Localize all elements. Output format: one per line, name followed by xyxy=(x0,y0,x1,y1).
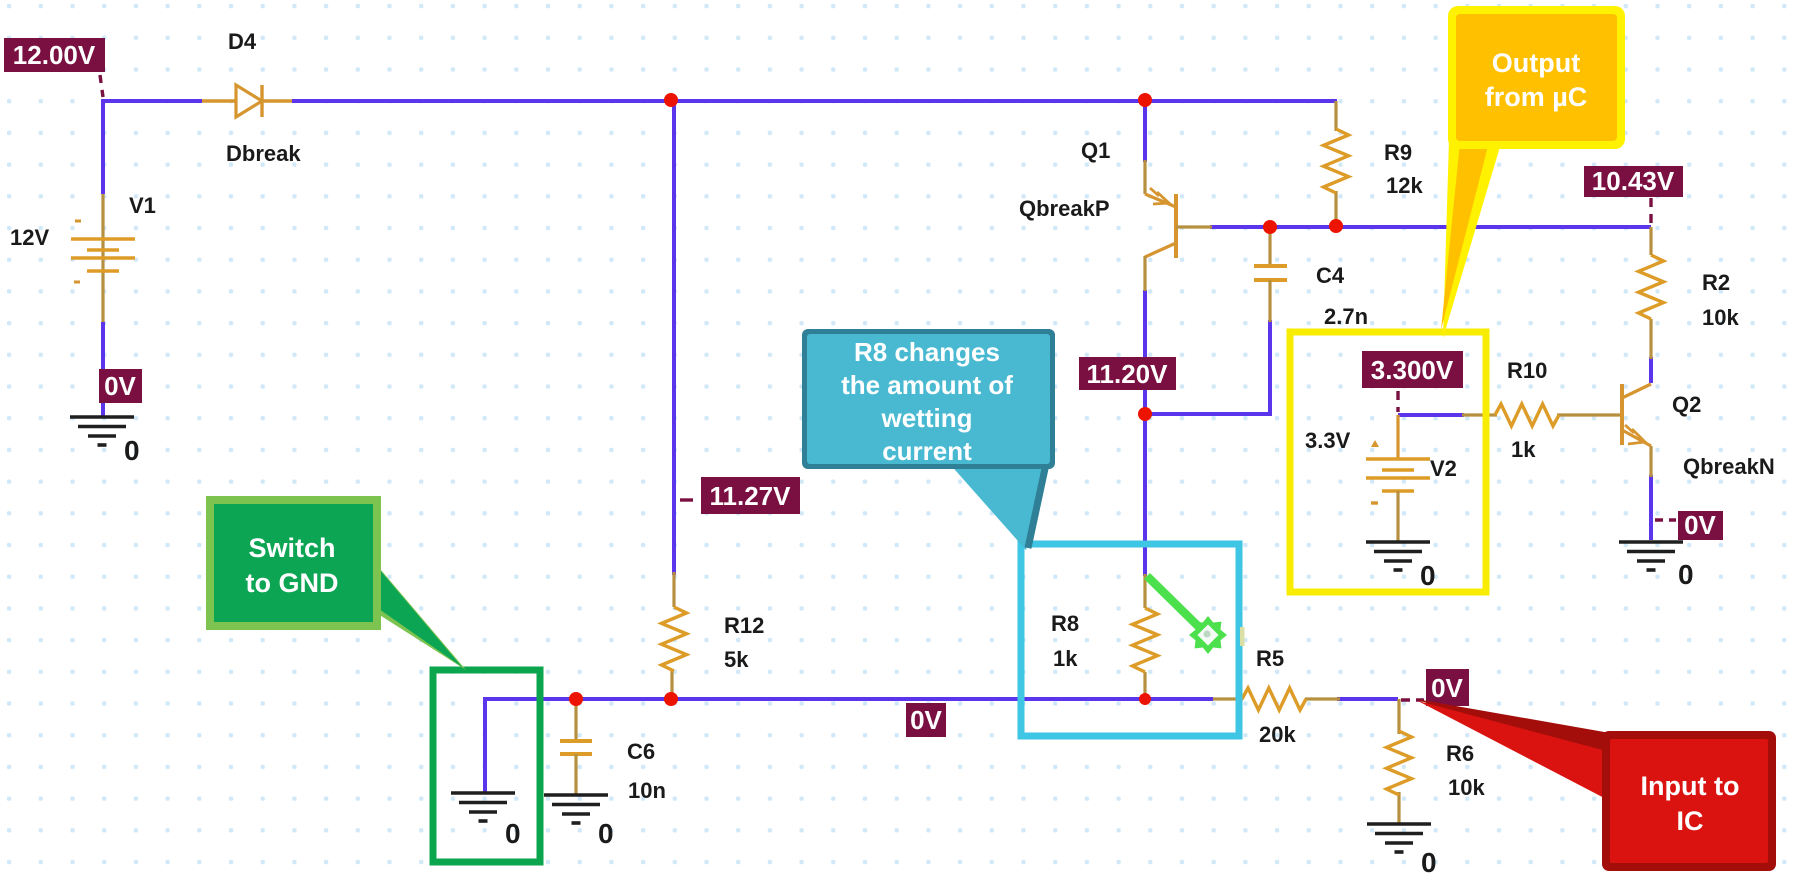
tick 0V Q2 xyxy=(1655,518,1676,521)
voltage label 0V right xyxy=(1426,669,1469,706)
ground inside switch box xyxy=(451,793,521,849)
wire base rail y227 xyxy=(1210,225,1651,229)
node R8 bottom xyxy=(1139,693,1151,705)
resistor R6 xyxy=(1387,699,1412,824)
ground below Q2 xyxy=(1619,542,1694,590)
wire R2 bottom to Q2 collector xyxy=(1649,357,1653,383)
callout green Switch to GND xyxy=(206,496,466,670)
svg-text:Q2: Q2 xyxy=(1672,392,1701,417)
wire Q2 emitter to ground xyxy=(1649,475,1653,540)
resistor R2 xyxy=(1639,227,1664,359)
svg-text:Switch: Switch xyxy=(248,533,335,563)
svg-text:IC: IC xyxy=(1677,806,1704,836)
svg-text:12V: 12V xyxy=(10,225,49,250)
svg-text:Q1: Q1 xyxy=(1081,138,1110,163)
resistor R12 xyxy=(662,572,687,699)
highlight rect yellow around V2 xyxy=(1290,332,1486,592)
svg-text:12k: 12k xyxy=(1386,173,1423,198)
svg-text:0V: 0V xyxy=(910,705,942,735)
green cursor pointer on R8 xyxy=(1147,576,1227,654)
svg-text:0: 0 xyxy=(1420,560,1436,591)
wire V2 node to R10 xyxy=(1398,413,1464,417)
node top-left junction xyxy=(664,93,678,107)
svg-text:1k: 1k xyxy=(1053,646,1078,671)
voltage label 11.20V xyxy=(1079,357,1176,390)
svg-text:QbreakP: QbreakP xyxy=(1019,196,1110,221)
ground below R6 xyxy=(1367,824,1437,878)
svg-text:11.27V: 11.27V xyxy=(710,481,792,511)
svg-text:10k: 10k xyxy=(1702,305,1739,330)
voltage label 0V Q2 xyxy=(1678,510,1723,540)
wire top rail right of diode xyxy=(292,99,1337,103)
node 11.20V xyxy=(1138,407,1152,421)
callout red Input to IC xyxy=(1416,699,1776,871)
svg-text:0V: 0V xyxy=(104,371,136,401)
wire Q1 emitter column xyxy=(1143,101,1147,162)
svg-text:1k: 1k xyxy=(1511,437,1536,462)
voltage label 3.300V xyxy=(1362,351,1463,388)
node C4 top xyxy=(1263,220,1277,234)
wire V1 column lower to ground xyxy=(101,322,105,416)
svg-text:Input to: Input to xyxy=(1641,771,1740,801)
ground below V1 xyxy=(70,417,140,466)
callout yellow Output from uC xyxy=(1441,6,1625,338)
wire Q1 collector down to node xyxy=(1143,290,1147,414)
svg-text:V2: V2 xyxy=(1430,456,1457,481)
capacitor C6 xyxy=(560,699,592,795)
capacitor C4 xyxy=(1254,229,1287,322)
svg-text:R5: R5 xyxy=(1256,646,1284,671)
svg-text:V1: V1 xyxy=(129,193,156,218)
svg-text:the amount of: the amount of xyxy=(841,370,1013,400)
ground below V2 xyxy=(1366,542,1436,591)
voltage label 0V V1 xyxy=(99,369,142,403)
resistor R5 xyxy=(1213,688,1340,710)
svg-text:to GND: to GND xyxy=(246,568,339,598)
node Q1 emitter top xyxy=(1138,93,1152,107)
wire switch stub vertical xyxy=(483,697,487,793)
stray tick right of cyan box xyxy=(1240,627,1245,646)
wire top rail left segment xyxy=(103,99,202,103)
wire R8 column xyxy=(1143,414,1147,576)
svg-text:5k: 5k xyxy=(724,647,749,672)
svg-text:D4: D4 xyxy=(228,29,257,54)
voltage label 11.27V xyxy=(701,477,800,514)
transistor Q2 QbreakN xyxy=(1622,384,1651,477)
svg-text:0V: 0V xyxy=(1431,673,1463,703)
tick 11.27V xyxy=(680,498,699,501)
voltage label 0V bottom mid xyxy=(906,703,946,737)
wire bottom rail xyxy=(485,697,1213,701)
MAIN WIRES xyxy=(103,99,1651,793)
resistor R8 xyxy=(1133,574,1158,699)
svg-text:QbreakN: QbreakN xyxy=(1683,454,1775,479)
svg-text:R6: R6 xyxy=(1446,741,1474,766)
svg-text:C4: C4 xyxy=(1316,263,1345,288)
resistor R10 xyxy=(1462,404,1623,426)
svg-text:R8 changes: R8 changes xyxy=(854,337,1000,367)
svg-text:3.300V: 3.300V xyxy=(1371,355,1454,385)
svg-text:11.20V: 11.20V xyxy=(1087,359,1169,389)
svg-text:10n: 10n xyxy=(628,778,666,803)
svg-text:from µC: from µC xyxy=(1485,82,1588,112)
transistor Q1 QbreakP xyxy=(1145,160,1212,291)
tick 10.43V xyxy=(1649,198,1652,224)
node C6 top xyxy=(569,692,583,706)
svg-text:0: 0 xyxy=(124,435,140,466)
battery V2 xyxy=(1366,415,1430,541)
svg-text:0: 0 xyxy=(1678,559,1694,590)
resistor R9 xyxy=(1324,101,1349,224)
svg-text:R8: R8 xyxy=(1051,611,1079,636)
wire R5 to 0V node xyxy=(1337,697,1398,701)
dashed lead ticks xyxy=(100,75,1676,700)
node R12 bottom xyxy=(664,692,678,706)
diode D4 xyxy=(202,85,292,117)
svg-text:0: 0 xyxy=(505,818,521,849)
svg-text:R12: R12 xyxy=(724,613,764,638)
svg-text:2.7n: 2.7n xyxy=(1324,304,1368,329)
highlight rect cyan around R8 xyxy=(1021,544,1239,736)
svg-text:20k: 20k xyxy=(1259,722,1296,747)
battery V1 xyxy=(71,194,135,322)
svg-text:0: 0 xyxy=(598,818,614,849)
svg-text:R9: R9 xyxy=(1384,140,1412,165)
svg-text:current: current xyxy=(882,436,972,466)
tick 0V right node xyxy=(1401,698,1424,701)
svg-text:10k: 10k xyxy=(1448,775,1485,800)
svg-text:0: 0 xyxy=(1421,847,1437,878)
wire R12 column xyxy=(672,101,676,575)
wire node 11.20V to C4 bottom xyxy=(1145,412,1270,416)
callout teal R8 changes xyxy=(802,329,1055,550)
node R9 bottom xyxy=(1329,219,1343,233)
svg-text:R10: R10 xyxy=(1507,358,1547,383)
svg-text:C6: C6 xyxy=(627,739,655,764)
svg-text:R2: R2 xyxy=(1702,270,1730,295)
tick 12.00V xyxy=(100,75,103,97)
wire V1 column upper xyxy=(101,99,105,194)
wire C4 bottom column xyxy=(1268,320,1272,416)
svg-text:wetting: wetting xyxy=(881,403,973,433)
svg-text:Output: Output xyxy=(1492,48,1580,78)
highlight rect green around switch ground xyxy=(433,670,540,862)
svg-text:0V: 0V xyxy=(1684,510,1716,540)
ground below C6 xyxy=(544,795,614,849)
svg-text:10.43V: 10.43V xyxy=(1592,166,1675,196)
svg-text:12.00V: 12.00V xyxy=(13,40,96,70)
svg-text:Dbreak: Dbreak xyxy=(226,141,301,166)
svg-text:3.3V: 3.3V xyxy=(1305,428,1351,453)
tick 3.300V xyxy=(1396,391,1399,412)
voltage label 12.00V xyxy=(4,38,105,72)
voltage label 10.43V xyxy=(1584,166,1683,197)
